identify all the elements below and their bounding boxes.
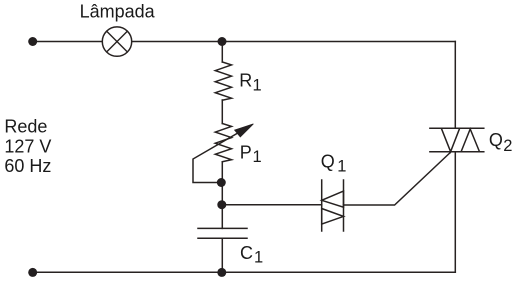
- svg-text:1: 1: [253, 77, 262, 95]
- svg-text:Q: Q: [321, 152, 335, 172]
- svg-text:1: 1: [254, 249, 263, 267]
- svg-text:1: 1: [253, 148, 262, 166]
- svg-text:P: P: [240, 143, 252, 163]
- svg-text:127 V: 127 V: [4, 136, 51, 156]
- svg-text:2: 2: [503, 137, 512, 155]
- svg-text:Rede: Rede: [4, 116, 47, 136]
- svg-text:R: R: [239, 71, 252, 91]
- svg-text:Lâmpada: Lâmpada: [80, 2, 156, 22]
- svg-text:1: 1: [337, 158, 346, 176]
- svg-text:Q: Q: [489, 130, 503, 150]
- svg-text:60 Hz: 60 Hz: [4, 156, 51, 176]
- svg-text:C: C: [240, 243, 253, 263]
